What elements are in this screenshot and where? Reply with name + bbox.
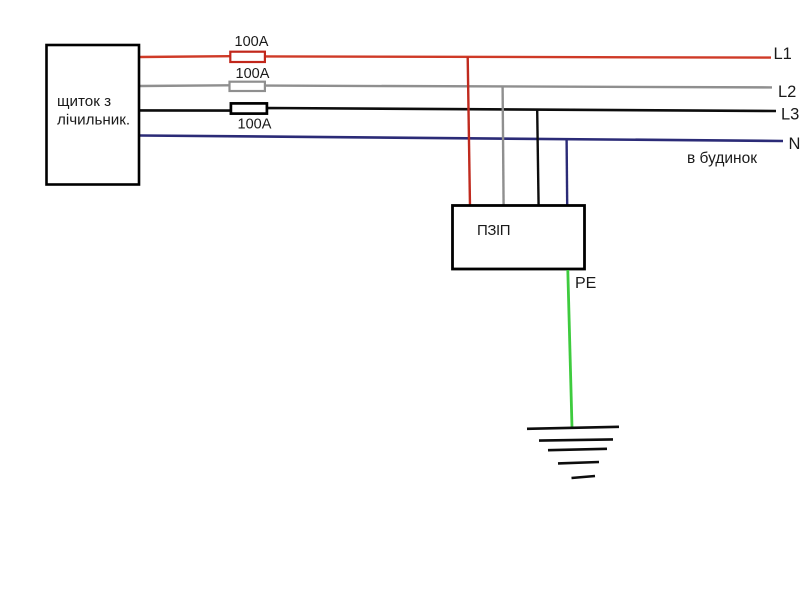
wire L1 drop to SPD bbox=[468, 57, 470, 207]
svg-text:100А: 100А bbox=[235, 34, 269, 50]
wire L1 bbox=[140, 56, 771, 57]
wire N bbox=[140, 136, 783, 142]
svg-text:щиток з: щиток з bbox=[57, 93, 111, 110]
meter panel box (щиток з лічильник.) bbox=[47, 45, 140, 185]
svg-text:100А: 100А bbox=[238, 117, 272, 133]
svg-text:N: N bbox=[789, 135, 800, 153]
annotation: в будинок bbox=[687, 150, 757, 167]
fuse F1 100A (L1) bbox=[230, 34, 268, 62]
fuse F3 100A (L3) bbox=[231, 103, 272, 132]
svg-text:лічильник.: лічильник. bbox=[57, 112, 130, 129]
svg-text:L1: L1 bbox=[774, 45, 792, 63]
node label N bbox=[789, 135, 800, 153]
wire L2 bbox=[140, 85, 772, 87]
fuse F2 100A (L2) bbox=[230, 66, 270, 91]
node label L1 bbox=[774, 45, 792, 63]
ground symbol bbox=[527, 427, 619, 478]
wire L2 drop to SPD bbox=[503, 86, 504, 206]
SPD box U1 (ПЗІП) bbox=[453, 206, 585, 270]
wire L3 drop to SPD bbox=[537, 111, 538, 207]
svg-text:L2: L2 bbox=[778, 83, 796, 101]
wire PE (green) bbox=[568, 270, 572, 428]
svg-text:PE: PE bbox=[575, 275, 596, 292]
node label L3 bbox=[781, 106, 799, 124]
svg-text:L3: L3 bbox=[781, 106, 799, 124]
node label L2 bbox=[778, 83, 796, 101]
svg-text:100А: 100А bbox=[236, 66, 270, 82]
wire N drop to SPD bbox=[565, 139, 568, 206]
wire L3 bbox=[140, 108, 776, 111]
svg-text:в будинок: в будинок bbox=[687, 150, 757, 167]
node label PE bbox=[575, 275, 596, 292]
svg-text:ПЗІП: ПЗІП bbox=[477, 222, 510, 239]
